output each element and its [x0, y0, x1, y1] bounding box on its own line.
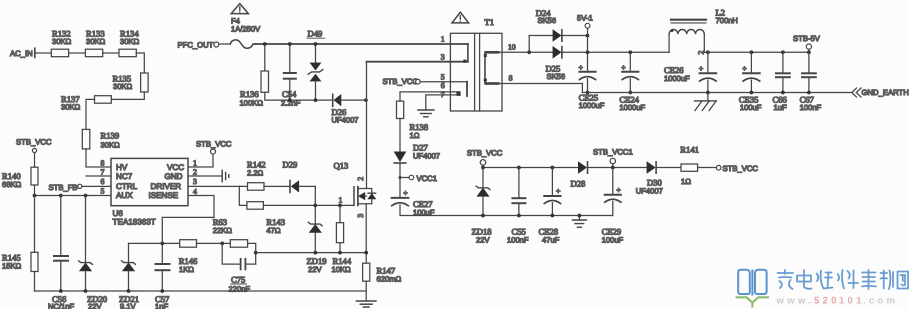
power STB_VCC at U6 pin1: [196, 140, 232, 155]
svg-text:30KΩ: 30KΩ: [86, 37, 106, 46]
wire R136 branch: [264, 44, 266, 71]
resistor R136: [240, 71, 269, 108]
wire C67 to earth rail: [808, 77, 810, 92]
wire to D25: [529, 51, 553, 53]
power 5V-1: [577, 13, 593, 35]
node CE35 top: [750, 50, 754, 54]
wire R134 to R135: [136, 53, 144, 73]
node C57 rail: [160, 289, 164, 293]
node C55 bottom: [517, 214, 521, 218]
wire T1 pin5: [420, 81, 467, 83]
wire VCC pin1 to STB_VCC: [188, 154, 213, 167]
resistor R146: [179, 240, 198, 274]
wire ZD21 to rail: [128, 271, 130, 291]
svg-text:UF4007: UF4007: [413, 152, 440, 161]
wire T1 pin8 to earth rail: [502, 84, 582, 93]
wire D24 cathode down: [587, 36, 589, 53]
resistor R132: [51, 29, 71, 57]
resistor R143: [247, 202, 285, 235]
node ZD20 tap: [84, 194, 88, 198]
svg-text:+: +: [621, 63, 626, 72]
fuse F4: [219, 17, 261, 49]
svg-text:1KΩ: 1KΩ: [179, 265, 194, 274]
svg-text:STB_FB: STB_FB: [49, 183, 78, 192]
node D24 join: [586, 34, 590, 38]
svg-text:HV: HV: [116, 163, 128, 172]
power STB_VCC right: [716, 164, 758, 173]
svg-text:22V: 22V: [308, 265, 322, 274]
svg-text:5: 5: [101, 187, 105, 196]
svg-text:UF4007: UF4007: [636, 187, 663, 196]
node CE24 bottom: [628, 91, 632, 95]
wire R139 to U6 pin 8: [86, 149, 111, 167]
svg-text:1Ω: 1Ω: [681, 177, 691, 186]
svg-text:STB_VCC: STB_VCC: [467, 149, 503, 158]
wire T1 pin7 to ground: [426, 95, 459, 110]
power STB_VCC1: [593, 147, 633, 167]
node D49 bottom: [314, 98, 318, 102]
svg-text:5V-1: 5V-1: [577, 13, 593, 22]
wire R63 right to join: [248, 243, 256, 264]
diode D25: [546, 47, 588, 81]
svg-text:100nF: 100nF: [507, 236, 529, 245]
svg-text:CTRL: CTRL: [116, 182, 138, 191]
capacitor CE29: [602, 168, 624, 245]
wire CE27 to secondary gnd rail: [400, 205, 613, 216]
svg-text:UF4007: UF4007: [332, 116, 359, 125]
svg-text:R139: R139: [101, 131, 120, 141]
resistor R135: [113, 73, 149, 92]
svg-text:STB_VCC: STB_VCC: [723, 164, 759, 173]
svg-text:7: 7: [101, 168, 105, 177]
capacitor CE28: [539, 168, 562, 245]
svg-text:VCC: VCC: [167, 163, 184, 172]
svg-text:30KΩ: 30KΩ: [52, 37, 72, 46]
node R144 tap: [338, 204, 342, 208]
resistor R134: [119, 29, 140, 57]
svg-text:2: 2: [356, 177, 365, 181]
svg-text:100uF: 100uF: [602, 236, 624, 245]
wire T1 pin3: [367, 61, 468, 63]
svg-text:700nH: 700nH: [716, 16, 738, 25]
warning triangle above F4: [231, 4, 248, 14]
wire D27 to VCC1/CE27: [399, 163, 401, 198]
node ZD21 rail: [127, 289, 131, 293]
svg-text:620mΩ: 620mΩ: [377, 275, 402, 284]
wire D29 down to gate node: [314, 186, 316, 205]
ground at U6 pin2: [222, 170, 229, 181]
node ZD19 bottom: [313, 251, 317, 255]
node CE35 bottom: [750, 91, 754, 95]
wire Q13 source down to R147: [365, 204, 367, 263]
svg-text:C75: C75: [231, 275, 245, 285]
node D49 top: [314, 42, 318, 46]
wire R133-R134: [103, 52, 119, 54]
TVS D49: [307, 28, 325, 100]
svg-text:22V: 22V: [88, 302, 102, 309]
diode D26: [332, 94, 366, 124]
wire sense line to R147 top: [256, 252, 367, 254]
wire earth rail: [582, 92, 850, 94]
svg-text:PFC_OUT: PFC_OUT: [178, 41, 214, 50]
watermark Chinese text: [778, 270, 909, 289]
wire ISENSE pin4 routing: [162, 196, 214, 244]
svg-text:100KΩ: 100KΩ: [240, 99, 264, 108]
node ZD18 top: [481, 166, 485, 170]
wire ISENSE sense rail: [129, 242, 180, 244]
node C56 tap: [59, 194, 63, 198]
svg-text:NC7: NC7: [116, 172, 133, 181]
svg-text:100uF: 100uF: [740, 103, 762, 112]
svg-text:GND: GND: [165, 172, 183, 181]
node C66 top: [781, 50, 785, 54]
wire 5V rail: [588, 51, 670, 53]
svg-text:6: 6: [101, 177, 105, 186]
wire split to lower gate branch: [239, 186, 247, 205]
resistor R139: [82, 129, 120, 149]
power STB_VCC above R140: [16, 138, 52, 153]
wire CE35 to earth rail: [750, 80, 752, 92]
capacitor C54: [281, 73, 301, 108]
svg-text:DRIVER: DRIVER: [151, 182, 182, 191]
resistor R141: [680, 145, 699, 187]
svg-text:30KΩ: 30KΩ: [113, 82, 133, 91]
watermark book underline: [737, 297, 768, 306]
port GND_EARTH: [852, 88, 909, 97]
wire T1 pin10: [502, 51, 529, 53]
ground at T1 pin7: [418, 110, 434, 117]
svg-text:+: +: [742, 64, 747, 73]
wire C54 branch: [289, 44, 291, 73]
svg-text:+: +: [403, 188, 408, 197]
svg-text:.com: .com: [863, 296, 898, 307]
node VCC1 tap: [399, 176, 402, 179]
wire C54 bottom: [289, 79, 291, 100]
node C67 bottom: [807, 91, 811, 95]
capacitor CE35: [739, 52, 762, 112]
svg-text:9.1V: 9.1V: [120, 302, 137, 309]
node sense join: [364, 251, 368, 255]
port STB_FB: [49, 183, 82, 192]
svg-text:1: 1: [441, 35, 445, 44]
svg-text:1nF: 1nF: [155, 302, 168, 309]
zener ZD18: [472, 168, 492, 245]
svg-text:AC_IN: AC_IN: [10, 49, 33, 58]
svg-text:101: 101: [839, 296, 865, 307]
wire R143 to gate node: [263, 204, 353, 206]
power STB_VCC at T1 pin5: [383, 77, 421, 86]
resistor R147: [363, 263, 402, 283]
node CE25 bottom: [586, 91, 590, 95]
capacitor CE27: [392, 188, 435, 217]
resistor R140: [2, 167, 38, 189]
resistor R133: [85, 29, 105, 57]
node pin10 split: [527, 50, 531, 54]
svg-text:30KΩ: 30KΩ: [120, 37, 140, 46]
warning triangle above T1: [452, 12, 469, 23]
wire D24 branch split: [528, 36, 530, 53]
wire GND pin2: [188, 175, 222, 177]
resistor R145: [2, 252, 38, 271]
zener ZD20: [79, 261, 108, 309]
ground below R147: [357, 301, 376, 307]
node C54 top: [288, 42, 292, 46]
wire R138 to D27: [399, 119, 401, 152]
wire R142 to D29: [264, 185, 290, 187]
svg-text:STB_VCC1: STB_VCC1: [593, 147, 633, 156]
wire CE26 to earth rail: [707, 80, 709, 92]
svg-text:47Ω: 47Ω: [266, 226, 280, 235]
ground at secondary VCC rail: [573, 216, 587, 228]
transistor Q13 MOSFET: [334, 161, 376, 218]
wire R145 to ground rail: [34, 272, 36, 292]
capacitor C75 parallel branch: [222, 243, 256, 293]
svg-text:6: 6: [441, 81, 445, 90]
svg-text:1Ω: 1Ω: [410, 131, 420, 140]
svg-text:STB_VCC: STB_VCC: [196, 140, 232, 149]
wire R141 to STB_VCC: [698, 167, 717, 169]
svg-text:SK56: SK56: [547, 72, 566, 81]
node switch-node junction: [364, 98, 368, 102]
wire C56 branch: [60, 196, 62, 257]
svg-text:47uF: 47uF: [542, 236, 560, 245]
node C55 top: [517, 166, 521, 170]
capacitor C55: [507, 168, 529, 245]
wire R135 to R137: [111, 92, 144, 99]
port VCC1: [400, 174, 437, 183]
wire C66 to earth rail: [782, 77, 784, 92]
node CE26 top: [706, 50, 710, 54]
svg-text:R141: R141: [680, 145, 699, 155]
node C57/ISENSE tap: [160, 242, 164, 246]
svg-text:68KΩ: 68KΩ: [2, 180, 22, 189]
wire T1 pin6 to R138: [400, 92, 459, 101]
svg-text:+: +: [579, 63, 584, 72]
svg-text:1uF: 1uF: [774, 103, 787, 112]
svg-text:STB_VCC: STB_VCC: [383, 77, 419, 86]
svg-text:T1: T1: [485, 17, 495, 27]
svg-text:1000uF: 1000uF: [664, 74, 690, 83]
svg-text:30KΩ: 30KΩ: [61, 103, 81, 112]
wire STB_VCC to R140: [34, 153, 36, 168]
node CE25 top: [586, 50, 590, 54]
wire pin7 NC stub: [86, 175, 111, 177]
zener ZD21: [119, 261, 139, 309]
power STB_VCC above ZD18: [467, 149, 503, 168]
node C54 bottom: [288, 98, 292, 102]
node ZD18 bottom: [481, 214, 485, 218]
svg-text:30KΩ: 30KΩ: [101, 141, 121, 150]
svg-text:10KΩ: 10KΩ: [332, 265, 352, 274]
svg-text:Q13: Q13: [334, 161, 349, 171]
svg-text:GND_EARTH: GND_EARTH: [862, 88, 909, 97]
svg-text:520: 520: [814, 296, 840, 307]
svg-text:1000uF: 1000uF: [619, 103, 645, 112]
svg-text:NC/1nF: NC/1nF: [48, 302, 75, 309]
node CE28 top: [551, 166, 555, 170]
diode D27: [394, 143, 440, 164]
svg-text:8: 8: [101, 159, 105, 168]
svg-text:STB_VCC: STB_VCC: [16, 138, 52, 147]
watermark url: [776, 296, 899, 307]
node STB_VCC1 junction: [611, 166, 615, 170]
node sense tap: [254, 251, 258, 255]
wire R145 branch: [34, 196, 36, 253]
svg-text:4: 4: [193, 187, 197, 196]
node C66 bottom: [781, 91, 785, 95]
svg-text:+: +: [699, 64, 704, 73]
chassis ground below CE26: [694, 93, 716, 111]
capacitor C57: [155, 264, 170, 309]
wire C57 branch: [161, 243, 163, 264]
svg-text:22V: 22V: [476, 236, 490, 245]
svg-text:2: 2: [193, 168, 197, 177]
wire R146 to R63: [197, 242, 231, 244]
wire ZD20 to rail: [85, 271, 87, 291]
svg-text:R136: R136: [240, 89, 259, 99]
wire C56 to rail: [60, 261, 62, 291]
node CE28 bottom: [551, 214, 555, 218]
svg-text:D49: D49: [308, 28, 323, 38]
inductor L2: [669, 8, 738, 55]
resistor R144: [332, 205, 352, 274]
wire R147 to ground: [365, 281, 367, 301]
svg-text:8: 8: [509, 74, 513, 83]
svg-text:100nF: 100nF: [800, 103, 822, 112]
node ZD20 rail: [84, 289, 88, 293]
wire AC_IN to R132: [36, 52, 52, 54]
node R136 top: [263, 42, 267, 46]
transformer T1: [450, 17, 502, 111]
svg-text:STB-5V: STB-5V: [793, 34, 821, 43]
wire CE24 to earth rail: [629, 79, 631, 93]
power STB-5V: [793, 34, 821, 53]
wire switch node vertical (T1 pin3 to Q13 drain): [366, 62, 368, 188]
node R140/R145: [33, 194, 37, 198]
svg-text:3: 3: [356, 214, 365, 218]
capacitor CE24: [619, 52, 645, 112]
wire CE25 to earth rail: [587, 79, 589, 93]
svg-text:D28: D28: [571, 179, 586, 189]
resistor R142: [247, 160, 266, 191]
svg-text:220nF: 220nF: [229, 284, 251, 293]
svg-text:2.2Ω: 2.2Ω: [247, 168, 264, 177]
svg-text:D29: D29: [283, 160, 298, 170]
wire R136 bottom / snubber bottom rail: [265, 92, 332, 100]
svg-text:TEA18363T: TEA18363T: [113, 218, 156, 227]
svg-text:3: 3: [441, 53, 445, 62]
svg-text:10: 10: [508, 42, 516, 51]
svg-text:3: 3: [193, 177, 197, 186]
wire STB_VCC rail: [483, 167, 578, 169]
wire bottom ground rail: [35, 290, 367, 292]
svg-text:+: +: [616, 185, 621, 194]
wire L2 to STB-5V: [704, 51, 809, 53]
node CE24 top: [628, 50, 632, 54]
diode D30: [636, 162, 681, 196]
capacitor C56: [48, 256, 75, 309]
wire ZD20 branch: [85, 196, 87, 263]
op-amp controller U6 TEA18363T: [111, 158, 188, 226]
port PFC_OUT: [178, 41, 219, 50]
diode D28: [571, 162, 647, 189]
svg-text:1: 1: [193, 159, 197, 168]
svg-text:1: 1: [339, 196, 343, 205]
wire to D24: [529, 35, 553, 37]
capacitor C66: [773, 52, 790, 112]
diode D29: [283, 160, 316, 193]
resistor R137: [61, 94, 111, 112]
node C75 left tap: [220, 242, 224, 246]
wire F4 to T1 pin1: [255, 43, 468, 45]
wire DRIVER pin3 to gate resistors: [188, 185, 248, 187]
node gate junction: [313, 204, 317, 208]
zener ZD19: [307, 205, 327, 274]
node C67 top: [807, 50, 811, 54]
svg-text:+: +: [556, 187, 561, 196]
svg-text:15KΩ: 15KΩ: [2, 262, 22, 271]
svg-text:1000uF: 1000uF: [579, 101, 605, 110]
node CE26 bottom: [706, 91, 710, 95]
svg-text:ISENSE: ISENSE: [149, 191, 179, 200]
resistor R63: [213, 217, 248, 247]
svg-text:VCC1: VCC1: [417, 174, 438, 183]
node R144 bottom: [338, 251, 342, 255]
capacitor CE25: [579, 52, 605, 110]
node C56 rail: [59, 289, 63, 293]
wire AUX pin5 rail: [35, 195, 112, 197]
wire R137 to R139: [86, 99, 95, 129]
svg-text:1A/250V: 1A/250V: [231, 25, 261, 34]
svg-text:SK56: SK56: [538, 16, 557, 25]
node ground tap: [578, 214, 582, 218]
wire C57 to rail: [161, 270, 163, 291]
capacitor CE26: [664, 52, 716, 83]
wire R132-R133: [69, 52, 86, 54]
watermark logo book icon: [738, 270, 766, 295]
capacitor C67: [800, 52, 822, 112]
port AC_IN: [10, 48, 35, 58]
diode D24: [536, 8, 588, 41]
svg-text:22KΩ: 22KΩ: [213, 226, 233, 235]
wire R140 to AUX rail: [34, 185, 36, 196]
wire ZD21 branch from R146 rail: [128, 243, 130, 262]
svg-text:AUX: AUX: [116, 191, 133, 200]
svg-text:www.: www.: [776, 296, 815, 307]
wire STB_FB to CTRL pin 6: [82, 185, 111, 187]
resistor R138: [397, 101, 429, 140]
